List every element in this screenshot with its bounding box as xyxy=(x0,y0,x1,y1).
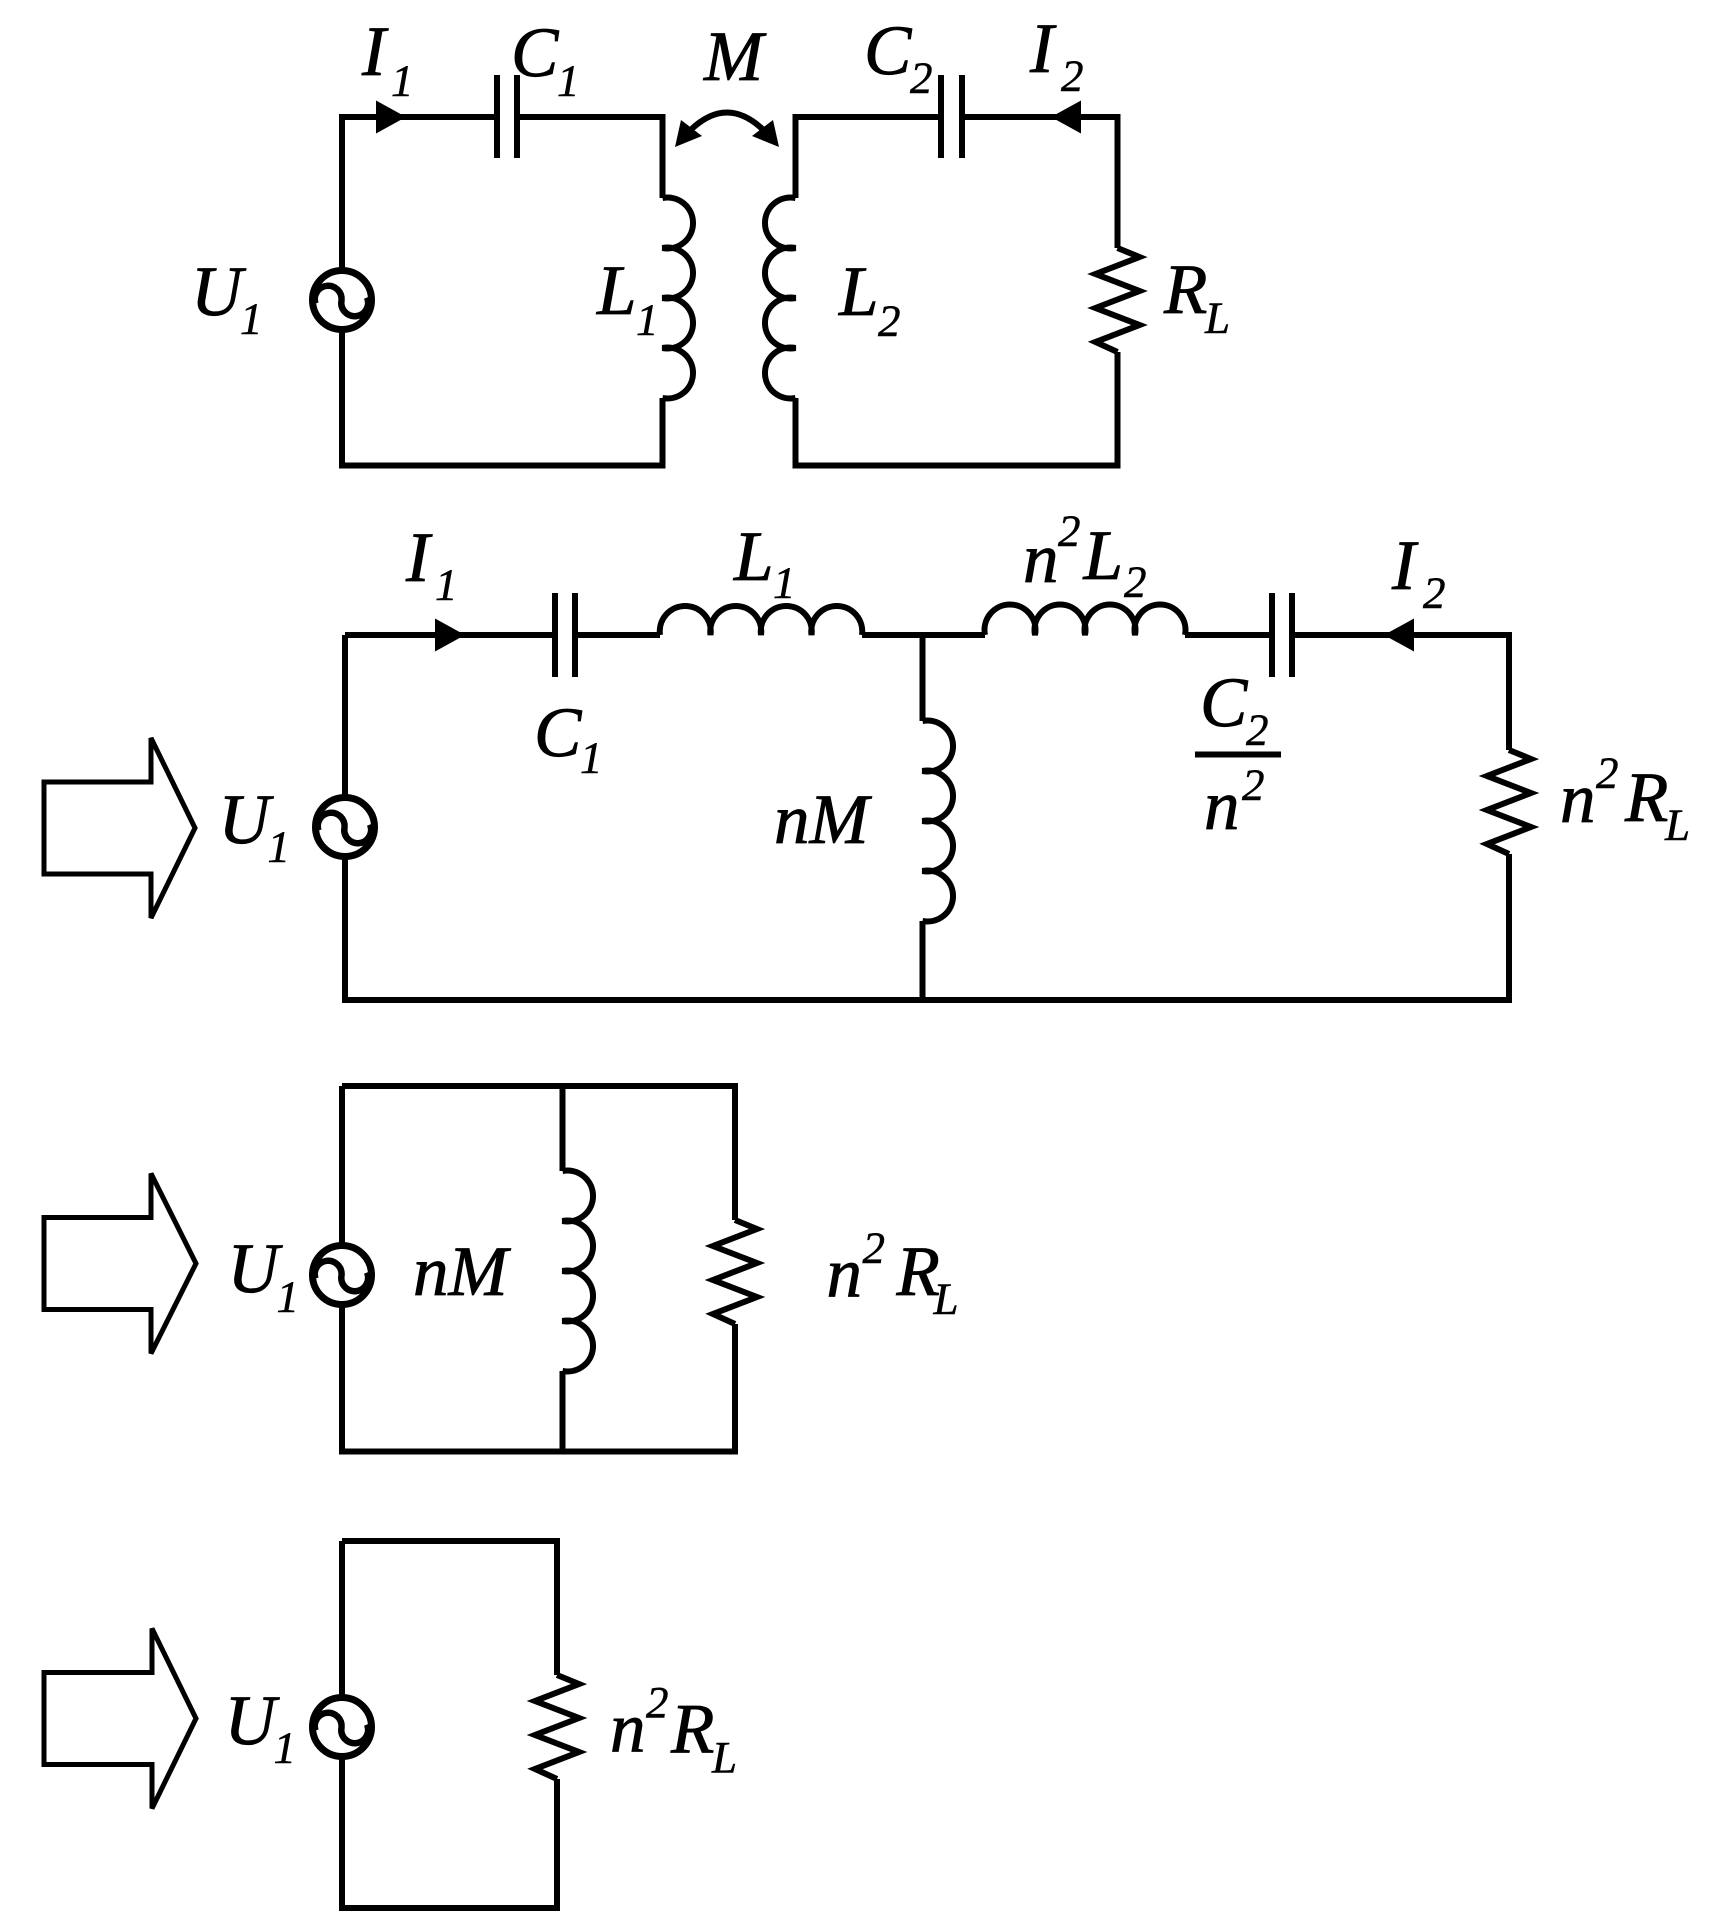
current arrow I2 xyxy=(1051,101,1081,134)
label n2RL c2 xyxy=(1563,789,1593,822)
wire c2 top segment e xyxy=(1292,635,1509,750)
label U1 xyxy=(198,269,247,316)
source U1 c2 xyxy=(316,798,375,857)
inductor n2L2 coil c2 xyxy=(985,604,1186,635)
resistor RL xyxy=(1096,248,1140,352)
inductor L2 coil xyxy=(765,198,796,399)
resistor n2RL c4 xyxy=(535,1675,579,1779)
label nM c2 xyxy=(777,810,807,843)
wire c3 middle lower xyxy=(560,1371,566,1452)
block arrow (step 1 to 2) xyxy=(44,738,195,918)
resistor n2RL c2 xyxy=(1487,750,1531,854)
inductor nM coil c2 xyxy=(923,721,954,922)
label C1 xyxy=(515,29,559,77)
wire c2 top segment b xyxy=(575,632,660,638)
label M xyxy=(703,34,766,80)
block arrow (step 3 to 4) xyxy=(44,1629,196,1809)
label I1 c2 xyxy=(406,535,433,581)
source U1 c3 xyxy=(313,1246,372,1305)
label n2RL c4 xyxy=(613,1718,643,1751)
label I2 c2 xyxy=(1392,543,1419,589)
label RL xyxy=(1164,267,1207,313)
mutual coupling arc M xyxy=(683,113,771,139)
block arrow (step 2 to 3) xyxy=(44,1174,196,1354)
wire loop 2 (bottom) xyxy=(796,352,1118,466)
label nM c3 xyxy=(416,1262,446,1295)
wire c3 outer rect xyxy=(342,1086,735,1452)
inductor L1 coil xyxy=(663,198,694,399)
label C2 xyxy=(868,27,912,75)
wire c3 middle upper xyxy=(560,1086,566,1171)
capacitor C2 plates xyxy=(938,75,944,158)
label L2 xyxy=(838,269,875,315)
wire loop 1 (left, bottom, lower-right) xyxy=(342,117,663,466)
current arrow I1 c2 xyxy=(435,619,465,652)
node wire c2 middle upper xyxy=(920,635,926,721)
inductor nM coil c3 xyxy=(563,1171,594,1372)
label L1 c2 xyxy=(733,534,770,580)
capacitor C2/n2 plates c2 xyxy=(1269,593,1275,677)
label C1 c2 xyxy=(538,709,582,757)
label U1 c4 xyxy=(231,1698,280,1745)
source U1 xyxy=(313,271,372,330)
label n2L2 c2 xyxy=(1026,549,1056,582)
wire c2 top segment a xyxy=(345,632,555,638)
source U1 c4 xyxy=(313,1698,372,1757)
wire loop 2 (top-right segment) xyxy=(962,117,1118,248)
label I1 xyxy=(362,29,389,75)
capacitor C1 plates xyxy=(494,75,500,158)
wire c2 left+bottom xyxy=(345,635,1509,1000)
wire c2 top segment d xyxy=(1185,632,1272,638)
inductor L1 coil c2 xyxy=(660,606,862,635)
wire c2 top segment c xyxy=(862,632,985,638)
node wire c2 middle lower xyxy=(920,921,926,1000)
current arrow I2 c2 xyxy=(1384,619,1414,652)
label U1 c2 xyxy=(225,797,274,844)
resistor n2RL c3 xyxy=(713,1220,757,1324)
wire loop 1 (top-right segment) xyxy=(517,117,663,198)
wire c4 rect xyxy=(342,1541,557,1908)
label C2/n2 fraction c2 xyxy=(1204,679,1248,727)
label L1 xyxy=(596,268,633,314)
label I2 xyxy=(1030,26,1057,72)
label n2RL c3 xyxy=(829,1263,859,1296)
capacitor C1 plates c2 xyxy=(552,593,558,677)
current arrow I1 xyxy=(376,101,406,134)
wire loop 2 (left, top-left segment) xyxy=(796,117,942,198)
label U1 c3 xyxy=(234,1246,283,1293)
